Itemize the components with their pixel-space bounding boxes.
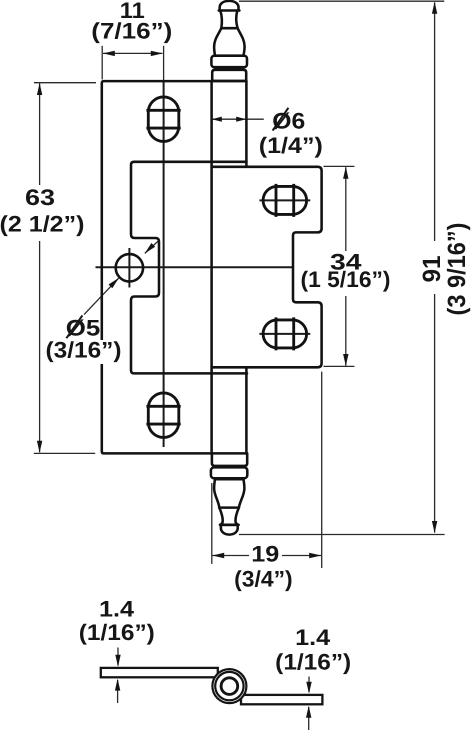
svg-text:1.4: 1.4: [295, 625, 331, 650]
dim Ø5 upper leader line: [145, 241, 158, 253]
right leaf top slot chord lines: [276, 184, 294, 217]
dim 1.4 left upper arrow line: [117, 648, 119, 666]
dim 11 left extension line: [101, 46, 103, 80]
right leaf top slot hole: [263, 186, 307, 214]
side view knuckle outer circle: [212, 669, 246, 703]
dim 91 down arrowhead: [432, 521, 437, 533]
right leaf outline: [212, 167, 322, 367]
svg-text:(3/4”): (3/4”): [234, 566, 293, 591]
dim 1.4 left lower arrow line: [117, 680, 119, 703]
dim 91 dimension line: [434, 2, 436, 532]
dim 1.4 right upper arrow line: [308, 677, 310, 693]
dim 63 up arrowhead: [37, 83, 42, 95]
dim Ø6 right arrowhead: [236, 117, 246, 122]
side view: [101, 668, 323, 704]
dim 11 dimension line: [103, 52, 163, 54]
svg-text:(1 5/16”): (1 5/16”): [301, 267, 391, 292]
right leaf centre tongue outline: [131, 162, 247, 374]
slash of Ø5 symbol: [66, 315, 82, 338]
left leaf top slot chord lines: [146, 110, 180, 128]
hinge pin left edge: [210, 81, 213, 454]
dim 1.4 right lower arrow line: [308, 707, 310, 730]
vertical centerline through left-leaf holes: [163, 81, 165, 447]
dim 91 up arrowhead: [432, 2, 437, 14]
top finial dome: [219, 1, 240, 11]
dim 19 right extension line: [321, 372, 323, 568]
svg-text:Ø6: Ø6: [272, 109, 305, 134]
right leaf bottom slot hole: [263, 320, 307, 348]
side view knuckle pin hole: [221, 678, 238, 695]
left leaf outline: [102, 81, 247, 453]
dim Ø6 left arrowhead: [212, 117, 222, 122]
heavier centerlines: [96, 81, 311, 447]
dim 19 left extension line: [211, 483, 213, 564]
dim 34 down arrowhead: [343, 354, 348, 366]
left leaf bottom slot hole: [148, 393, 179, 438]
dim 63 bottom extension line: [34, 452, 95, 454]
left leaf top slot hole: [148, 97, 179, 142]
dim 1.4 right up arrowhead: [306, 706, 311, 718]
right leaf bottom hole centerline: [259, 333, 310, 335]
top finial bulb: [214, 28, 245, 56]
svg-text:91: 91: [418, 255, 446, 282]
hinge pin right edge lower: [245, 367, 248, 453]
top finial band: [212, 70, 246, 81]
svg-text:(7/16”): (7/16”): [91, 19, 172, 44]
right leaf top hole centerline: [259, 199, 310, 201]
bottom finial bulb: [214, 479, 244, 507]
svg-text:(1/16”): (1/16”): [79, 620, 155, 645]
dim 63 dimension line: [39, 84, 41, 453]
svg-text:(3/16”): (3/16”): [46, 337, 122, 362]
dim 19 dimension line: [212, 555, 321, 557]
dim 91 bottom extension line: [239, 534, 445, 536]
white masks under labels: [0, 185, 442, 564]
side view left leaf plate: [101, 668, 218, 677]
dim 19 left arrowhead: [212, 553, 224, 558]
bottom finial band: [212, 454, 247, 466]
dim Ø6 leader line: [246, 118, 264, 120]
svg-text:19: 19: [251, 542, 279, 567]
top finial collar: [211, 56, 247, 67]
thick part outlines: [102, 1, 322, 535]
dim Ø6 dimension line: [212, 118, 246, 120]
Ø5 hole vertical centerline: [128, 248, 130, 288]
dim 34 bottom extension line: [324, 365, 355, 367]
slash of Ø6 symbol: [273, 108, 289, 131]
dim 1.4 left up arrowhead: [115, 679, 120, 691]
dim 11 right arrowhead: [151, 51, 163, 56]
bottom finial neck: [219, 508, 239, 525]
bottom finial collar: [211, 467, 247, 478]
dim 34 up arrowhead: [343, 167, 348, 179]
dim 34 dimension line: [345, 167, 347, 365]
svg-text:(2 1/2”): (2 1/2”): [0, 211, 85, 236]
11-dim right extension line: [163, 46, 165, 81]
left leaf bottom slot chord lines: [146, 406, 180, 424]
svg-text:(3 9/16”): (3 9/16”): [443, 223, 471, 316]
horizontal mid centerline: [96, 266, 294, 268]
dim 1.4 right down arrowhead: [306, 682, 311, 694]
dim Ø5 lower arrowhead: [109, 278, 119, 288]
dim 19 right arrowhead: [309, 553, 321, 558]
svg-text:1.4: 1.4: [99, 597, 135, 622]
dim Ø5 upper arrowhead: [145, 243, 155, 253]
dim Ø5 lower leader line: [84, 278, 119, 314]
side view right leaf plate: [241, 695, 322, 704]
dim 63 down arrowhead: [37, 441, 42, 453]
dim 34 top extension line: [324, 165, 355, 167]
svg-text:(1/16”): (1/16”): [275, 649, 351, 674]
svg-text:(1/4”): (1/4”): [259, 133, 323, 158]
right leaf bottom slot chord lines: [276, 317, 294, 350]
dim 1.4 left down arrowhead: [115, 655, 120, 667]
hinge pin right edge upper: [245, 81, 248, 167]
bottom finial dome: [220, 525, 239, 535]
Ø5 round hole: [116, 254, 143, 281]
dim 11 left arrowhead: [103, 51, 115, 56]
dim 91 top extension line: [239, 0, 444, 2]
dim 63 top extension line: [34, 82, 96, 84]
side view knuckle middle circle: [215, 672, 243, 700]
top finial neck: [220, 11, 237, 29]
screw holes: [116, 97, 307, 438]
svg-text:63: 63: [25, 185, 55, 210]
